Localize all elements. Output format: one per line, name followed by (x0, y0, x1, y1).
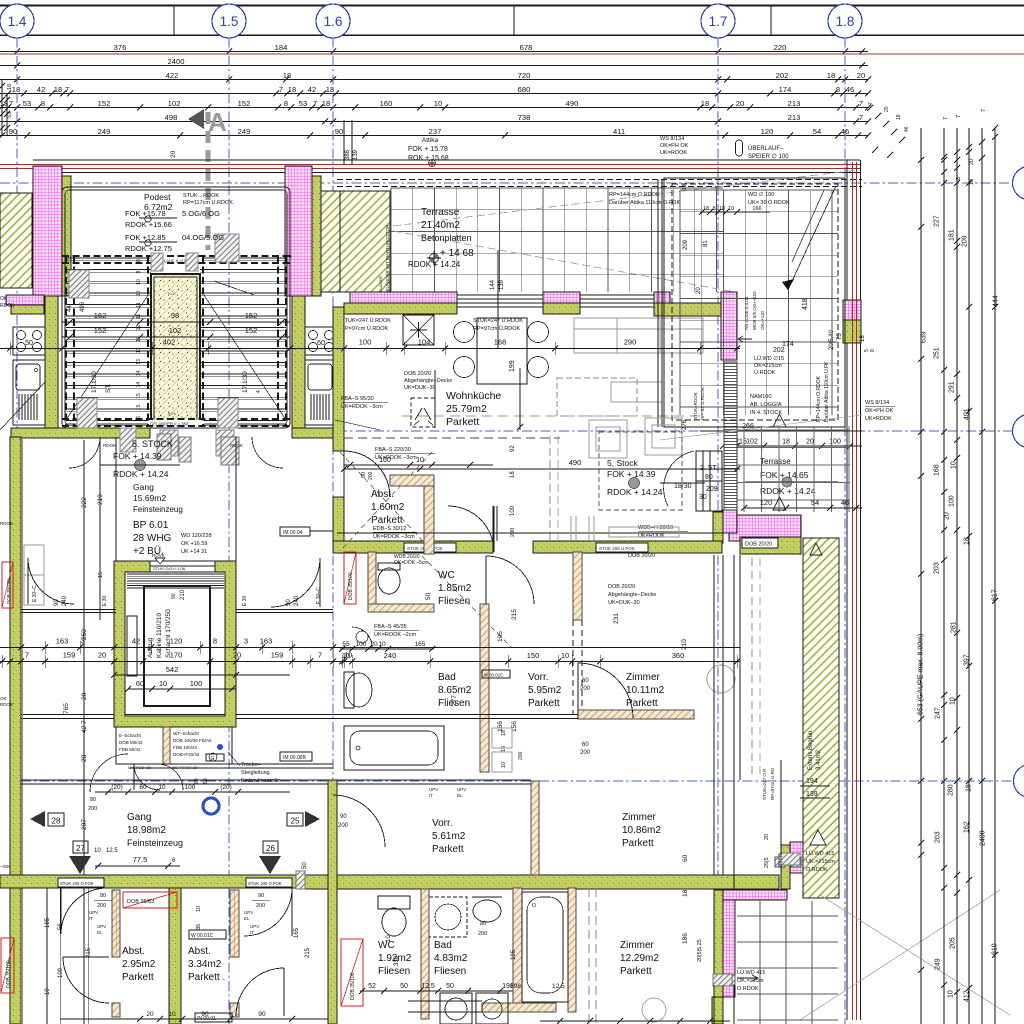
svg-text:ROK: ROK (168, 411, 177, 416)
svg-text:542: 542 (166, 665, 179, 674)
dim 542 (114, 674, 290, 676)
svg-text:20: 20 (370, 641, 378, 648)
svg-text:RDOK: RDOK (103, 443, 116, 448)
svg-text:20: 20 (81, 692, 88, 700)
in0001 box (195, 1013, 232, 1022)
svg-text:165: 165 (45, 917, 51, 928)
ceiling dashed gray lines (402, 415, 700, 417)
svg-text:200: 200 (97, 903, 106, 909)
svg-text:WD 120/228: WD 120/228 (181, 533, 212, 539)
kitchen dim chain (0, 348, 740, 350)
svg-text:UK=RDOK –3cm: UK=RDOK –3cm (341, 404, 383, 410)
svg-text:163: 163 (260, 637, 273, 646)
svg-text:FBA–S 220/30: FBA–S 220/30 (375, 447, 411, 453)
svg-text:8: 8 (41, 99, 45, 108)
stairwell right wall olive strip (312, 176, 321, 296)
svg-text:RP=144cm O.RDOK: RP=144cm O.RDOK (816, 375, 822, 422)
svg-text:168: 168 (934, 464, 941, 476)
svg-text:A: A (208, 107, 227, 137)
svg-text:RP–53 O.RDOK: RP–53 O.RDOK (700, 387, 705, 420)
svg-text:DOB 35/100: DOB 35/100 (6, 960, 12, 988)
terrace right tile grid (743, 426, 745, 512)
svg-text:10: 10 (158, 784, 166, 791)
svg-text:159: 159 (271, 651, 284, 660)
loggia inner wall lines (657, 180, 659, 427)
svg-text:163: 163 (56, 637, 69, 646)
zimmer door arc (578, 663, 633, 718)
svg-text:RP=97cm Ü.RDOK: RP=97cm Ü.RDOK (473, 325, 521, 332)
grid lines zimmer1229 right (759, 901, 761, 1024)
svg-text:UK=ROOK: UK=ROOK (660, 150, 687, 156)
svg-text:80: 80 (90, 797, 96, 803)
top dimension chains (0, 51, 868, 53)
grid bubble 1.5 (212, 4, 246, 38)
svg-text:139: 139 (353, 149, 359, 160)
svg-text:DOB M0/42: DOB M0/42 (119, 740, 143, 745)
svg-text:10: 10 (950, 697, 957, 705)
svg-text:160: 160 (379, 457, 391, 464)
svg-text:STUK→RDOK: STUK→RDOK (183, 193, 219, 199)
svg-text:738: 738 (518, 113, 531, 122)
svg-text:BP 6.01: BP 6.01 (133, 520, 169, 531)
svg-text:198: 198 (510, 983, 521, 990)
svg-text:M=FFOK+80: M=FFOK+80 (128, 765, 152, 770)
grid bubble 1.6 (316, 4, 350, 38)
svg-text:10.86m2: 10.86m2 (622, 825, 661, 836)
svg-text:Zimmer: Zimmer (622, 812, 657, 823)
svg-text:249: 249 (935, 958, 942, 970)
svg-text:20: 20 (170, 150, 177, 158)
svg-text:200: 200 (510, 528, 516, 537)
svg-text:18: 18 (7, 84, 13, 90)
svg-text:209: 209 (683, 239, 689, 250)
svg-text:WS 8/134: WS 8/134 (865, 400, 889, 406)
svg-text:222: 222 (81, 497, 88, 508)
duct tan columns (112, 890, 120, 957)
armchair 1 (589, 420, 627, 458)
svg-text:Kabine 110/210: Kabine 110/210 (156, 613, 163, 658)
svg-text:IM 00.06B: IM 00.06B (283, 755, 306, 761)
svg-text:194: 194 (806, 778, 818, 785)
abst ceiling dashed X (340, 452, 432, 551)
svg-text:53: 53 (299, 99, 307, 108)
svg-text:186: 186 (682, 933, 689, 944)
stair handrail dashed bottom (62, 418, 290, 420)
svg-text:RDOK: RDOK (0, 521, 13, 526)
svg-text:80: 80 (100, 893, 106, 899)
svg-text:UPV: UPV (429, 787, 438, 792)
m0001c box (482, 670, 510, 678)
svg-text:Abst.: Abst. (371, 489, 394, 500)
svg-text:1.7: 1.7 (709, 14, 728, 29)
triangle marker near green band (810, 543, 822, 555)
svg-text:20: 20 (764, 834, 770, 840)
svg-text:STUK 240 O.FOK: STUK 240 O.FOK (60, 881, 94, 886)
svg-text:120: 120 (170, 637, 183, 646)
svg-text:Parkett: Parkett (432, 844, 464, 855)
svg-text:14: 14 (136, 382, 142, 388)
svg-text:Zimmer: Zimmer (626, 672, 661, 683)
svg-text:162: 162 (94, 311, 107, 320)
svg-text:105: 105 (497, 631, 504, 642)
dob 35/83 red box (123, 892, 177, 908)
svg-text:W 00.01C: W 00.01C (191, 933, 214, 939)
svg-text:50: 50 (425, 592, 432, 600)
marker 27 (73, 841, 88, 853)
band right part olive (305, 875, 779, 889)
svg-text:8: 8 (870, 349, 876, 352)
right dimension band vertical lines (920, 128, 922, 1024)
line above mid band (337, 532, 737, 534)
svg-text:EL: EL (244, 916, 250, 921)
dim 490 (344, 468, 740, 470)
svg-text:UK=RDOK: UK=RDOK (638, 533, 665, 539)
svg-text:411: 411 (613, 127, 625, 136)
svg-text:STUK=2x3=+1.0&: STUK=2x3=+1.0& (153, 566, 186, 571)
blue horizontal grid line lower (21, 780, 1013, 782)
svg-text:765: 765 (63, 703, 70, 714)
svg-text:11: 11 (136, 302, 142, 307)
svg-text:Terrasse: Terrasse (421, 207, 460, 218)
sliding door dashes kitchen (549, 436, 551, 540)
svg-text:STUK 240 O.FOK: STUK 240 O.FOK (248, 881, 282, 886)
terrace tile grid (390, 188, 392, 292)
svg-text:152: 152 (238, 99, 251, 108)
svg-text:120: 120 (761, 127, 774, 136)
svg-text:Trockn–: Trockn– (241, 762, 262, 768)
tan wall vorr-zimmer (531, 781, 539, 875)
svg-text:220: 220 (774, 43, 787, 52)
svg-text:UK=RDOK: UK=RDOK (865, 416, 892, 422)
svg-text:27: 27 (76, 844, 85, 853)
svg-text:60: 60 (136, 679, 144, 688)
svg-text:26: 26 (266, 844, 275, 853)
svg-text:231: 231 (613, 613, 620, 624)
svg-text:04.OG/5.OG: 04.OG/5.OG (182, 233, 224, 242)
bottom right diagonals (820, 895, 1010, 1015)
svg-text:5.95m2: 5.95m2 (528, 685, 562, 696)
svg-text:(20): (20) (111, 784, 123, 791)
svg-text:+ 14 68: + 14 68 (440, 248, 474, 259)
svg-text:200: 200 (478, 931, 487, 937)
svg-text:4.83m2: 4.83m2 (434, 953, 468, 964)
svg-text:RDOK: RDOK (0, 702, 13, 707)
terrace roof dashed lines (393, 170, 858, 226)
svg-text:15: 15 (136, 393, 142, 399)
svg-text:213: 213 (788, 99, 801, 108)
right terrace bottom wall pink (729, 515, 801, 541)
door arc right room (271, 558, 320, 607)
dim row wc (340, 648, 434, 650)
kitchen window lines (457, 294, 543, 296)
svg-text:15: 15 (98, 572, 104, 578)
svg-text:90: 90 (258, 893, 264, 899)
stair handrail text chips (150, 257, 202, 264)
svg-text:Vorr.: Vorr. (432, 818, 453, 829)
door arc gang left (90, 754, 128, 792)
svg-text:UPV: UPV (97, 924, 106, 929)
svg-text:90: 90 (340, 814, 347, 820)
elevator door gap top (150, 562, 215, 572)
im0004 box (280, 527, 310, 536)
svg-text:100: 100 (359, 338, 372, 347)
svg-text:DOB 35/100: DOB 35/100 (350, 972, 356, 1000)
svg-text:20: 20 (884, 106, 890, 112)
svg-text:DOB 20/20: DOB 20/20 (745, 542, 772, 548)
svg-text:Einbaulmestelle: Einbaulmestelle (241, 778, 280, 784)
svg-text:OK=PH OK: OK=PH OK (865, 408, 894, 414)
top right tick cluster (867, 105, 873, 111)
svg-text:FDB 60/42: FDB 60/42 (119, 747, 141, 752)
svg-text:RP=87cm U.RD: RP=87cm U.RD (770, 767, 775, 800)
svg-text:FDB 100/42: FDB 100/42 (173, 745, 198, 750)
svg-text:3.41m2: 3.41m2 (816, 749, 822, 770)
svg-text:IT: IT (250, 930, 254, 935)
svg-text:100: 100 (510, 505, 516, 516)
svg-text:4: 4 (288, 255, 294, 258)
svg-text:Abgehängte–Decke: Abgehängte–Decke (608, 592, 656, 598)
svg-text:ROK + 15.68: ROK + 15.68 (408, 155, 449, 162)
svg-text:18/30: 18/30 (674, 483, 692, 490)
svg-text:UPV: UPV (250, 924, 259, 929)
svg-text:205: 205 (950, 937, 957, 949)
svg-text:18: 18 (682, 184, 688, 190)
svg-text:152: 152 (94, 326, 107, 335)
svg-text:Zimmer: Zimmer (620, 940, 655, 951)
svg-text:OK=DOK –5cm: OK=DOK –5cm (394, 560, 429, 566)
svg-text:20: 20 (736, 99, 744, 108)
svg-text:7: 7 (279, 85, 283, 94)
right small stair to terrace (696, 451, 722, 481)
abst right wall lines (492, 506, 494, 541)
svg-text:109: 109 (58, 967, 64, 978)
svg-text:DOB 100/26 FB/AK: DOB 100/26 FB/AK (173, 738, 212, 743)
red dob box left wall (2, 562, 13, 608)
svg-text:60: 60 (139, 784, 147, 791)
svg-text:412: 412 (964, 990, 971, 1002)
marker 26 (263, 841, 278, 853)
grid bubble 1.8 (828, 4, 862, 38)
door arc vorr561 (333, 795, 385, 847)
svg-text:IN 4. STOCK: IN 4. STOCK (750, 410, 782, 416)
svg-text:O.RDOK: O.RDOK (737, 986, 759, 992)
grid bubble 1.4 (0, 4, 34, 38)
svg-text:Fliesen: Fliesen (378, 966, 410, 977)
left exterior wall olive (10, 437, 21, 1024)
right terrace bottom wall olive (740, 537, 801, 554)
svg-text:UK=DUK–30: UK=DUK–30 (404, 385, 436, 391)
svg-text:UK +14 31: UK +14 31 (181, 549, 207, 555)
svg-text:240: 240 (384, 651, 397, 660)
svg-text:7: 7 (859, 113, 863, 122)
svg-text:10: 10 (136, 279, 142, 285)
dim 120 54 46 (744, 507, 862, 509)
svg-text:17.1/30: 17.1/30 (242, 371, 249, 393)
bad sink (346, 673, 372, 707)
svg-text:100: 100 (949, 495, 956, 507)
svg-text:13: 13 (136, 359, 142, 365)
svg-text:18: 18 (510, 471, 516, 478)
red reference line (0, 53, 1024, 55)
dining table (477, 318, 527, 384)
svg-text:DOB 35/100: DOB 35/100 (6, 579, 11, 604)
right corridor dashed vertical (751, 558, 753, 778)
w0001c box (189, 930, 226, 939)
svg-text:46: 46 (846, 85, 854, 94)
svg-text:RDOK +15.66: RDOK +15.66 (125, 220, 172, 229)
svg-text:247: 247 (935, 707, 942, 719)
svg-text:12.5: 12.5 (106, 848, 118, 854)
svg-text:UPV: UPV (244, 910, 253, 915)
sink bad483 (473, 900, 501, 922)
svg-text:20: 20 (81, 754, 88, 762)
svg-text:1.8: 1.8 (836, 14, 855, 29)
svg-text:IT: IT (429, 793, 433, 798)
svg-text:200: 200 (518, 751, 524, 760)
svg-text:144: 144 (490, 279, 496, 290)
svg-text:Gang: Gang (133, 482, 154, 492)
svg-text:E 30: E 30 (242, 595, 248, 606)
right edge grid bubbles (1013, 167, 1024, 200)
svg-text:Parkett: Parkett (622, 838, 654, 849)
svg-text:25|5: 25|5 (764, 857, 770, 868)
bottom-left olive partition wall (169, 888, 181, 1024)
dim cluster 266 (700, 430, 862, 432)
svg-text:ÜBERLAUF–: ÜBERLAUF– (748, 145, 784, 152)
svg-text:Darüber Attika 110cm O.FOK: Darüber Attika 110cm O.FOK (609, 200, 680, 206)
right edge wall blocks (843, 300, 861, 320)
left kitchen counter stove (13, 327, 45, 355)
svg-text:IT: IT (89, 916, 93, 921)
stairwell left wall pink (33, 166, 62, 296)
svg-text:42: 42 (37, 85, 45, 94)
svg-text:210: 210 (180, 589, 186, 600)
e-schacht block (116, 727, 232, 764)
svg-text:60: 60 (682, 854, 689, 862)
svg-text:Parkett: Parkett (620, 966, 652, 977)
svg-text:Darüber Attika 110cm U.FK: Darüber Attika 110cm U.FK (824, 361, 830, 422)
top title band (0, 5, 1024, 7)
elevator car (144, 586, 210, 706)
red dob box bottom left (1, 938, 14, 993)
svg-text:O.RDOK: O.RDOK (806, 867, 828, 873)
svg-text:Bad: Bad (434, 940, 452, 951)
svg-text:90: 90 (335, 127, 343, 136)
svg-text:2400: 2400 (168, 57, 185, 66)
svg-text:678: 678 (520, 43, 533, 52)
svg-text:166: 166 (752, 206, 761, 212)
elevator counterweight hatch (127, 573, 224, 575)
svg-text:250: 250 (81, 629, 88, 640)
mid wall olive band (333, 541, 493, 553)
kitchen left wall olive (333, 307, 344, 451)
svg-text:10: 10 (501, 762, 507, 768)
svg-text:FOK + 15.78: FOK + 15.78 (408, 146, 448, 153)
stove with cross (403, 315, 434, 345)
svg-text:18: 18 (288, 85, 296, 94)
wc top tan wall (368, 552, 376, 604)
svg-text:2.95m2: 2.95m2 (122, 959, 156, 970)
svg-text:1.92m2: 1.92m2 (378, 953, 412, 964)
section marker A (188, 109, 204, 129)
corridor thin walls (21, 609, 116, 611)
svg-text:10.11m2: 10.11m2 (626, 685, 665, 696)
right band ticks (941, 157, 947, 163)
svg-text:16: 16 (136, 416, 142, 422)
mid wall labels (404, 543, 456, 552)
svg-text:720: 720 (518, 71, 531, 80)
svg-text:215: 215 (511, 609, 518, 620)
svg-text:276: 276 (682, 419, 688, 430)
ceiling dashed box (411, 398, 435, 427)
svg-text:90: 90 (201, 1011, 209, 1018)
svg-text:5. Stock: 5. Stock (607, 458, 638, 468)
svg-text:UK=DUK–30: UK=DUK–30 (608, 600, 640, 606)
bottom dim ticks right half (540, 1020, 730, 1022)
svg-text:498: 498 (165, 113, 178, 122)
svg-text:291: 291 (949, 381, 956, 393)
svg-text:92: 92 (510, 445, 516, 452)
svg-text:2. ST.: 2. ST. (700, 465, 718, 472)
stair handrail dashed verticals (65, 256, 67, 426)
svg-text:NC–FFOK+80: NC–FFOK+80 (172, 765, 198, 770)
svg-text:RÖVK: RÖVK (152, 552, 165, 558)
svg-text:KLK: KLK (168, 291, 176, 296)
svg-text:18: 18 (969, 179, 975, 185)
svg-text:Parkett .: Parkett . (188, 972, 225, 983)
svg-text:1.6: 1.6 (324, 14, 343, 29)
svg-text:Parkett: Parkett (122, 972, 154, 983)
svg-text:20: 20 (98, 651, 106, 660)
svg-text:17.1/30: 17.1/30 (91, 371, 98, 393)
svg-text:18: 18 (701, 99, 709, 108)
svg-text:18: 18 (860, 335, 866, 342)
svg-text:M 00.01C: M 00.01C (484, 673, 504, 678)
svg-text:209: 209 (962, 235, 969, 247)
svg-text:174: 174 (779, 85, 792, 94)
svg-text:53: 53 (7, 112, 13, 118)
svg-text:8.65m2: 8.65m2 (438, 685, 472, 696)
svg-text:219: 219 (97, 494, 104, 505)
red dob box wc (344, 552, 356, 604)
svg-text:EDB–S 30/12: EDB–S 30/12 (373, 526, 406, 532)
bathtub mid bottom (513, 888, 522, 1012)
gang upper wall lines (130, 763, 333, 765)
svg-text:203: 203 (935, 831, 942, 843)
stair treads right flight (200, 257, 286, 259)
svg-text:139: 139 (499, 279, 505, 290)
svg-text:Fliesen: Fliesen (438, 596, 470, 607)
svg-text:7: 7 (868, 102, 874, 105)
stair chimney shaft (151, 274, 200, 425)
svg-text:203: 203 (934, 562, 941, 574)
svg-text:653 (GAUPE max. 8.00m): 653 (GAUPE max. 8.00m) (918, 634, 925, 715)
svg-text:11: 11 (136, 314, 142, 319)
svg-text:Wohnküche: Wohnküche (446, 390, 501, 402)
bad right tan wall (480, 604, 489, 772)
svg-text:STUK 205 U.FOK: STUK 205 U.FOK (599, 546, 635, 551)
svg-text:E 30: E 30 (102, 595, 108, 606)
svg-text:STUK=247 Ü.RDOK: STUK=247 Ü.RDOK (341, 317, 391, 324)
svg-text:20: 20 (857, 71, 865, 80)
svg-text:7: 7 (318, 651, 322, 660)
svg-text:152: 152 (98, 99, 111, 108)
svg-text:STUK=RDOK: STUK=RDOK (693, 392, 698, 420)
svg-text:100: 100 (185, 784, 196, 791)
svg-text:WS 8/134: WS 8/134 (660, 136, 684, 142)
left vertical dims (83, 440, 85, 1024)
svg-text:104: 104 (418, 338, 431, 347)
